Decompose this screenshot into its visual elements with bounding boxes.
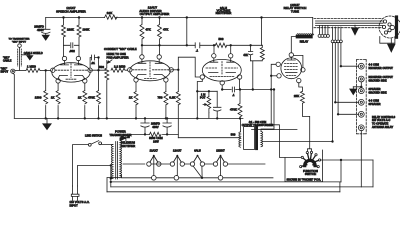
resistor 2.2 MEG series grid (111, 68, 128, 72)
wire primary bottom to bus L1 (107, 165, 120, 191)
heater V3 symbol (190, 162, 194, 166)
svg-text:450V: 450V (152, 125, 159, 129)
wire B+ to relay coil (312, 18, 314, 35)
wire right contact to relay line (321, 159, 373, 161)
wire plate bus second stage (142, 44, 214, 46)
svg-text:OUTPUT AMPLIFIER: OUTPUT AMPLIFIER (140, 12, 170, 16)
capacitor coupling .002 (71, 43, 73, 48)
svg-text:470K: 470K (230, 108, 237, 112)
svg-text:1K: 1K (78, 96, 82, 100)
wire bus L2 (111, 186, 373, 188)
leader arrow to junction (109, 60, 112, 63)
tube V3 internals (210, 58, 235, 62)
svg-text:1K: 1K (129, 96, 133, 100)
tube V1 12AX7 envelope (52, 63, 90, 82)
wire terminal 2-3 strap and ground (353, 82, 361, 88)
transformer T1 secondary winding (120, 141, 122, 178)
resistor 1 MEG series (26, 68, 40, 72)
svg-text:10W: 10W (153, 139, 159, 143)
wire terminal 5 feed (338, 113, 358, 115)
terminal strip dashed outline (357, 60, 367, 134)
ground symbol terminal (350, 87, 357, 95)
wire heater bus top (151, 163, 265, 165)
tube V3 6AL5 envelope (202, 59, 241, 81)
wire relay contact line down (372, 160, 374, 187)
junction node (221, 88, 223, 90)
heater V4 symbol (213, 162, 217, 166)
svg-text:560: 560 (99, 65, 104, 69)
resistor R1 220K plate load (62, 18, 66, 46)
svg-text:GROUND SIDE: GROUND SIDE (369, 80, 387, 83)
resistor 10K inline top bus (105, 15, 118, 19)
capacitor cathode bypass (209, 91, 221, 118)
svg-text:POT: POT (200, 97, 206, 100)
ground symbol cable shield right (352, 25, 359, 35)
wire drops to tube V2 plates (142, 45, 160, 54)
svg-text:12BH7: 12BH7 (216, 149, 225, 153)
junction nodes clipper (213, 44, 215, 46)
diode selenium rectifier (120, 134, 130, 140)
resistor 470K grid leak (98, 58, 100, 119)
svg-text:470K: 470K (88, 96, 95, 100)
svg-text:6AL5: 6AL5 (194, 149, 201, 153)
svg-text:ANTENNA RELAY: ANTENNA RELAY (372, 126, 393, 129)
wire B plus filter line (130, 133, 179, 135)
resistor 560 clipper (215, 43, 226, 47)
transformer T2 core bar (255, 126, 258, 151)
svg-text:1500: 1500 (35, 96, 42, 100)
svg-text:1K: 1K (51, 96, 55, 100)
svg-text:2.2 MEG: 2.2 MEG (114, 65, 125, 69)
terminal 6 (358, 125, 364, 131)
wire function switch feed vertical (340, 160, 342, 182)
svg-text:750: 750 (157, 96, 162, 100)
svg-text:CABLE SHIELD: CABLE SHIELD (24, 52, 43, 55)
capacitor coupling .01 (91, 55, 94, 60)
junction dots ground bus (45, 117, 242, 119)
wire heater bus bottom (122, 175, 274, 178)
AC plug 115V (71, 186, 79, 200)
switch S1 line switch (88, 143, 91, 146)
svg-text:1 MEG: 1 MEG (27, 65, 36, 69)
capacitor .1 coupling to relay tube (232, 87, 234, 92)
wire V2 plate out right (171, 69, 178, 71)
transformer T2 output primary winding (239, 132, 241, 147)
svg-text:CABLE: CABLE (3, 60, 12, 63)
svg-text:SPEAKER: SPEAKER (369, 103, 381, 106)
svg-text:INPUT: INPUT (70, 203, 79, 207)
wire cathode to output transformer primary (252, 129, 297, 131)
rotary switch spokes (302, 154, 319, 167)
function switch S2 rotary wafer (305, 160, 315, 165)
svg-text:SPEECH AMPLIFIER: SPEECH AMPLIFIER (56, 9, 86, 13)
wire V2 cathode right to resistor 750 (165, 82, 167, 118)
svg-text:.002: .002 (69, 49, 75, 53)
octal plug P1 socket circle (379, 16, 400, 38)
ground bus main (14, 117, 243, 119)
jack mic input (11, 69, 15, 73)
wire drops to tube V3 plates (214, 45, 231, 53)
wire terminal 1 feed (341, 65, 359, 67)
tube V2 12AU7 envelope (130, 61, 171, 81)
ground symbol below plug (388, 44, 395, 52)
tube V3 pins (212, 54, 216, 58)
svg-text:47K: 47K (163, 28, 168, 32)
tube V4 12BH7 envelope (281, 58, 302, 79)
wire grid down to ground bus (45, 70, 47, 118)
wire resistor to tube V1 grid (40, 69, 51, 71)
transformer T1 core (116, 142, 118, 180)
wire switch to transformer primary (102, 143, 114, 144)
terminal 4 (358, 99, 364, 105)
junction nodes (141, 44, 143, 46)
junction node grid (45, 69, 47, 71)
wire plug ground stem (390, 39, 392, 44)
resistor 1K cathode V2 (134, 92, 138, 105)
wire AC hot to line switch (73, 145, 89, 186)
octal plug shell bar (395, 15, 398, 38)
wire terminal 6 down to line bus (360, 131, 362, 187)
junction node (177, 69, 179, 71)
wire stub lower grid (271, 75, 277, 77)
wire V1 output to grid network (90, 69, 107, 71)
capacitor coupling to clipper (195, 43, 200, 48)
wire V2 cathode left to resistor (135, 82, 137, 118)
transformer T2 secondary winding (261, 131, 263, 146)
tube V2 pins (140, 55, 144, 59)
wire relay coil to tube plate (291, 37, 303, 68)
transformer T2 bobbin box (244, 127, 255, 150)
wire clipper plate line (214, 44, 262, 46)
svg-text:SHOWN IN "PHONE" POS.: SHOWN IN "PHONE" POS. (287, 178, 322, 182)
resistor cathode right (83, 91, 87, 104)
svg-text:12AU7: 12AU7 (173, 149, 182, 153)
tube V1 internals plates grids cathodes (61, 61, 83, 65)
wire bus L1 (111, 181, 341, 183)
svg-text:20MFD: 20MFD (151, 121, 160, 125)
relay K1 coil (296, 35, 313, 39)
resistor filter 5000 ohm (150, 132, 161, 136)
svg-text:HERE TO USE: HERE TO USE (107, 52, 127, 56)
resistor 1500 cathode (44, 91, 48, 104)
heater V2 symbol (170, 162, 174, 166)
terminal 1 (358, 63, 364, 69)
ground symbol main bus (43, 118, 51, 129)
resistor 100K clipper load (251, 18, 265, 90)
terminal 5 (358, 111, 364, 117)
wire B+ top bus (46, 17, 313, 19)
svg-text:INPUT: INPUT (1, 70, 9, 73)
cable lacing loops group 2 (331, 27, 342, 43)
svg-text:RECEIVER OUTPUT: RECEIVER OUTPUT (369, 67, 394, 70)
svg-text:PRE-AMPLIFIER: PRE-AMPLIFIER (107, 56, 129, 60)
svg-text:FUNCTION: FUNCTION (303, 169, 318, 173)
cable lacing loops group 1 (318, 25, 329, 37)
cable run down to terminals (333, 43, 341, 142)
svg-text:GROUND SIDE: GROUND SIDE (369, 91, 387, 94)
resistor 6.8K (177, 70, 179, 138)
tube V1 pins (62, 56, 66, 60)
svg-text:RECTIFIER: RECTIFIER (216, 11, 232, 15)
wire pot top to clipper out (197, 91, 217, 96)
svg-text:6.8K: 6.8K (169, 96, 175, 100)
svg-text:115 VOLTS A.C.: 115 VOLTS A.C. (70, 200, 90, 204)
svg-text:10K: 10K (107, 11, 113, 15)
svg-text:220K: 220K (67, 28, 74, 32)
svg-text:TO TRANSMITTER: TO TRANSMITTER (9, 38, 30, 41)
ground symbol cable shield (21, 54, 30, 57)
wire cap out to relay tube grid (240, 64, 301, 157)
svg-text:POWER: POWER (115, 130, 126, 134)
wire jack to grid resistor (15, 69, 26, 71)
wire tube V4 cathode to resistor (299, 83, 303, 92)
resistor 47K plate load V2a (140, 18, 144, 46)
heater V1 symbol (147, 162, 151, 166)
wire secondary top to terminal line (261, 90, 274, 132)
wire AC neutral to bus (78, 165, 111, 186)
junction dots top bus (62, 16, 262, 18)
wire B+ drop to plate bus (186, 18, 188, 46)
wire V1 cathode right down (84, 83, 86, 118)
wire L3 right end up (339, 182, 341, 192)
octal plug pins (383, 20, 386, 23)
svg-text:CONNECT "MIC" CABLE: CONNECT "MIC" CABLE (104, 47, 137, 51)
ground symbol below filter cap (42, 35, 49, 40)
wire primary top to bus junction (240, 118, 242, 131)
potentiometer gain control (207, 97, 211, 113)
terminal 3 (358, 88, 364, 94)
svg-text:SWITCH: SWITCH (305, 172, 316, 176)
svg-text:100K: 100K (83, 28, 90, 32)
resistor 750 (164, 92, 168, 105)
octal plug mounting box (380, 37, 395, 44)
terminal 2 (358, 76, 364, 82)
cable harness to plug horizontal (316, 21, 384, 25)
svg-text:450V: 450V (37, 28, 44, 32)
capacitor clipper bias (248, 45, 252, 61)
wire V3 bottom pin to cap network (222, 79, 240, 89)
svg-text:RELAY: RELAY (300, 41, 309, 44)
resistor R2 100K plate load (77, 18, 81, 46)
jack to transmitter (18, 44, 22, 48)
wire V1 plate to coupling cap (90, 58, 98, 69)
wire secondary line to speaker circuit (262, 141, 333, 143)
svg-text:25K: 25K (294, 94, 299, 98)
svg-text:47K: 47K (243, 54, 248, 57)
svg-text:.01: .01 (91, 61, 95, 65)
tube V4 pins (289, 53, 293, 57)
wire mic jack sleeve to ground bus (13, 73, 15, 118)
transformer T1 primary winding (111, 144, 113, 178)
capacitor 20MFD input filter (141, 118, 149, 134)
wire V3 left pin down to ground (197, 79, 202, 118)
wire shielded cable vertical (19, 47, 21, 70)
rotary switch contacts (300, 166, 302, 168)
junction node (97, 69, 99, 71)
capacitor 20MFD 450V filter left (42, 18, 51, 36)
svg-text:RECTIFIER: RECTIFIER (121, 144, 136, 148)
svg-text:500: 500 (231, 132, 236, 136)
resistor 1K cathode (56, 91, 60, 104)
wire 500 ohm feed line from filter (178, 137, 240, 139)
wire terminal 4 feed (335, 101, 358, 103)
svg-text:47K: 47K (146, 28, 151, 32)
wire V1 cathode left to resistor (57, 83, 59, 118)
svg-text:TUBE: TUBE (291, 10, 299, 14)
resistor 25K cathode relay tube (300, 91, 311, 151)
svg-text:"MIC" INPUT: "MIC" INPUT (12, 42, 27, 44)
resistor 47K plate load V2b (158, 18, 162, 46)
svg-text:12AX7: 12AX7 (150, 149, 159, 153)
function switch box outline (285, 150, 323, 182)
wire plate line tube1 (64, 45, 80, 56)
svg-text:560: 560 (218, 37, 223, 41)
tube V4 internals (287, 57, 295, 60)
resistor 560 divider (105, 61, 109, 119)
svg-text:LINE SWITCH: LINE SWITCH (85, 135, 102, 138)
wire feedback path up and to clipper (178, 57, 200, 77)
resistor 470K grid relay tube (238, 90, 242, 119)
tube V2 internals (138, 59, 163, 63)
wire heater winding top tap (123, 163, 145, 165)
wire bus L3 (107, 191, 340, 193)
capacitor 20MFD output filter (163, 118, 171, 134)
